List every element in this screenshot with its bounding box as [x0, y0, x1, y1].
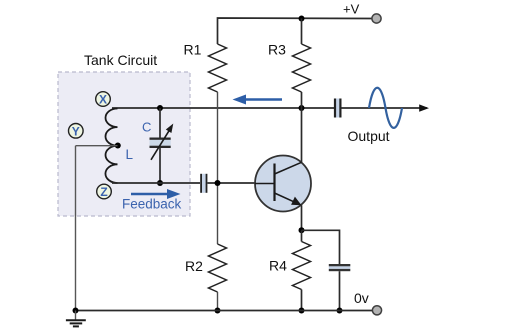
svg-text:0v: 0v	[354, 290, 369, 306]
resistor R4	[293, 242, 311, 290]
wire: bypass capacitor to bottom rail	[339, 271, 341, 310]
node: coil center tap	[115, 143, 121, 149]
node: R2 bottom	[215, 308, 221, 314]
node: base / divider junction	[215, 180, 221, 186]
0v terminal	[372, 306, 381, 315]
svg-text:Output: Output	[348, 128, 390, 144]
svg-text:R4: R4	[269, 258, 287, 274]
svg-text:Z: Z	[100, 185, 107, 199]
ground symbol	[66, 311, 86, 327]
variable capacitor C branch vertical (bottom)	[159, 148, 161, 183]
node: R4 bottom	[299, 308, 305, 314]
wire: output segment after capacitor	[342, 107, 428, 109]
wire: emitter vertical	[301, 205, 303, 230]
node: R3 bottom / collector / output junction	[299, 105, 305, 111]
variable capacitor C branch vertical (top)	[159, 108, 161, 138]
node: ground junction	[73, 308, 79, 314]
transistor emitter diagonal with arrow	[275, 193, 302, 205]
terminal X	[96, 92, 111, 107]
svg-text:L: L	[126, 147, 134, 162]
transistor base lead inside circle	[255, 183, 275, 185]
tank circuit dashed box	[58, 72, 190, 216]
variable capacitor arrow	[151, 124, 173, 160]
wire: bottom rail	[76, 310, 373, 312]
+V terminal	[372, 14, 381, 23]
wire: tap to left	[76, 145, 118, 147]
resistor R1	[209, 44, 227, 92]
feedback coupling capacitor	[200, 174, 207, 193]
transistor collector diagonal	[275, 162, 302, 174]
svg-text:Tank Circuit: Tank Circuit	[84, 52, 157, 68]
wire: R1-R2 column vertical	[217, 92, 219, 244]
transistor Q1 body	[255, 156, 311, 212]
resistor R2	[209, 244, 227, 292]
svg-text:R1: R1	[184, 41, 202, 57]
svg-text:C: C	[142, 120, 151, 135]
svg-text:+V: +V	[343, 2, 360, 17]
wire: tank bottom (feedback)	[112, 182, 200, 184]
node: capacitor bottom	[337, 308, 343, 314]
wire: R4 stub from emitter junction	[301, 230, 303, 241]
terminal Y	[69, 124, 84, 139]
variable capacitor C plates	[150, 138, 171, 149]
wire: emitter junction to bypass capacitor	[302, 230, 340, 264]
svg-text:Y: Y	[72, 124, 80, 138]
node: emitter junction	[299, 227, 305, 233]
sine wave	[369, 88, 402, 128]
transistor base bar	[273, 164, 275, 202]
svg-text:R2: R2	[185, 258, 203, 274]
wire: R2 bottom stub	[217, 292, 219, 311]
svg-text:Feedback: Feedback	[122, 197, 182, 212]
feedback arrow (blue)	[131, 189, 181, 199]
wire: collector vertical	[301, 92, 303, 162]
node: R3 top junction	[299, 16, 305, 22]
wire: main horizontal (tank top / collector / output)	[112, 107, 334, 109]
bypass capacitor C4	[329, 264, 351, 271]
inductor L (4 arcs)	[105, 109, 117, 184]
wire: capacitor to transistor base	[208, 182, 256, 184]
svg-text:R3: R3	[268, 42, 286, 58]
output coupling capacitor	[334, 99, 342, 118]
wire: R3 stub to top rail	[301, 19, 303, 45]
terminal Z	[97, 184, 112, 199]
blue arrow (current direction, pointing left)	[233, 95, 283, 105]
wire: R4 bottom stub	[301, 290, 303, 311]
node: C branch top	[157, 105, 163, 111]
svg-text:X: X	[99, 93, 107, 107]
wire: left vertical down to ground	[75, 146, 77, 311]
output arrowhead	[419, 104, 429, 111]
top rail wire	[218, 18, 373, 44]
node: C branch bottom	[157, 180, 163, 186]
resistor R3	[293, 44, 311, 92]
